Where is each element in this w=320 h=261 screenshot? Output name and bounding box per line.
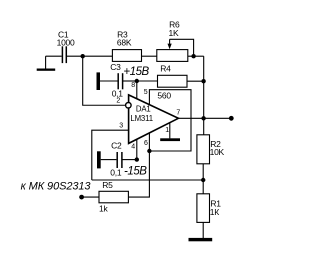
wire R2 bottom to node C <box>202 164 204 180</box>
svg-text:560: 560 <box>157 91 171 101</box>
node pin 4 / C2 <box>135 157 139 161</box>
svg-text:68K: 68K <box>117 37 132 47</box>
resistor R2 <box>197 135 225 164</box>
resistor R5 <box>99 180 128 213</box>
pin 5 / 560 routing loop to pin 6 <box>149 90 191 151</box>
svg-text:3: 3 <box>119 123 123 130</box>
capacitor C3 with chassis bar <box>97 62 124 98</box>
svg-text:1k: 1k <box>99 204 108 214</box>
svg-text:R4: R4 <box>160 63 171 73</box>
wire R6 wiper to node B <box>170 39 194 56</box>
node A (C1/R3/pin2 junction) <box>81 54 85 58</box>
wire R6 right to node B <box>188 55 194 57</box>
wire riser (node B down to R2) <box>203 56 205 135</box>
node B (R6 right + wiper) <box>191 54 195 58</box>
wire pin8 node to R4 <box>137 80 158 82</box>
pin 4 stub <box>136 139 138 159</box>
svg-text:1: 1 <box>165 127 169 134</box>
svg-text:1K: 1K <box>169 28 179 38</box>
svg-text:C2: C2 <box>111 141 122 151</box>
svg-text:4: 4 <box>131 144 135 151</box>
wire C3 to pin8 node <box>123 80 137 82</box>
svg-text:0,1: 0,1 <box>110 168 122 178</box>
svg-text:5: 5 <box>144 89 148 96</box>
wire terminal to R5 <box>82 196 99 198</box>
svg-text:2: 2 <box>116 98 120 105</box>
resistor R1 <box>197 194 221 223</box>
input terminal dot <box>79 195 84 200</box>
node pin 8 <box>135 79 139 83</box>
svg-text:10K: 10K <box>210 147 225 157</box>
wire node B to riser <box>194 55 204 57</box>
svg-text:-15В: -15В <box>124 166 147 178</box>
pin 1 stub <box>169 123 171 139</box>
svg-text:+15В: +15В <box>123 66 149 78</box>
svg-text:LM311: LM311 <box>130 114 153 123</box>
capacitor C1 <box>57 29 75 63</box>
wire R1 to ground <box>202 222 204 238</box>
svg-text:R5: R5 <box>102 180 113 190</box>
svg-text:C3: C3 <box>110 62 121 72</box>
output terminal dot <box>229 116 234 121</box>
wire R4 right to riser <box>187 80 204 82</box>
wire C1 to node A <box>66 55 82 57</box>
wire ground to C1 <box>46 55 62 57</box>
op-amp DA1 LM311 <box>129 95 179 143</box>
svg-text:7: 7 <box>176 110 180 117</box>
node C (R2/R1/pin3) <box>201 178 205 182</box>
node pin 6 / R5 riser <box>147 149 151 153</box>
svg-text:DA1: DA1 <box>136 105 151 114</box>
svg-text:8: 8 <box>131 82 135 89</box>
pin 3 wire <box>92 130 129 180</box>
wire R5 right + riser up to pin 6 node <box>128 151 149 197</box>
pin 8 stub <box>136 81 138 99</box>
svg-text:1000: 1000 <box>57 37 75 47</box>
node R4/riser <box>201 79 205 83</box>
pin 2 wire from node A <box>83 56 125 105</box>
inversion bubble (pin 2) <box>126 103 132 109</box>
wire node C to R1 <box>202 180 204 194</box>
pin 6 stub <box>148 133 150 151</box>
resistor R3 <box>112 29 141 61</box>
ground (top-left) <box>37 56 56 71</box>
capacitor C2 with chassis bar <box>97 141 122 178</box>
svg-text:6: 6 <box>144 140 148 147</box>
node output/riser <box>201 116 205 120</box>
resistor R4 <box>157 63 187 100</box>
wire C2 to pin 4 node <box>122 159 137 161</box>
wire node A to R3 <box>83 55 113 57</box>
wire node C to pin 3 riser <box>92 179 203 181</box>
wire R3 to R6 <box>142 55 157 57</box>
svg-text:к МК 90S2313: к МК 90S2313 <box>21 181 92 193</box>
ground (pin 1) <box>160 138 180 141</box>
svg-text:1К: 1К <box>210 207 219 217</box>
ground (bottom) <box>189 238 213 241</box>
potentiometer R6 <box>157 20 188 62</box>
pin 7 output wire <box>178 117 231 119</box>
